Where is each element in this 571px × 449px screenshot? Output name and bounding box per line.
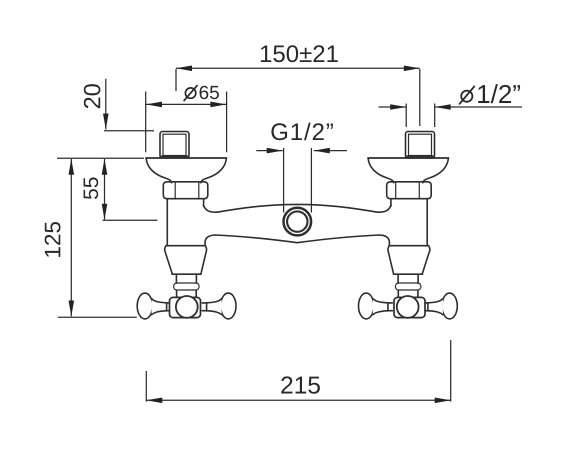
dimension 20 reference line: [104, 130, 154, 132]
body arm top edge: [204, 204, 391, 212]
shower outlet circle outer: [284, 208, 312, 236]
dimension ø1/2 leader line: [435, 106, 522, 108]
dimension ø1/2 inch text: [460, 84, 520, 104]
dimension 215 text: [281, 376, 320, 393]
left valve assembly: [137, 132, 236, 319]
dimension 20 line: [105, 79, 107, 130]
dimension G1/2 inch text: [271, 123, 333, 141]
dimension G1/2 arrows: [256, 150, 282, 152]
dimension 150±21 line: [176, 67, 420, 69]
dimension ø1/2 left arrow: [379, 106, 407, 108]
dimension 55 line: [104, 159, 106, 220]
dimension G1/2 extension lines: [284, 148, 312, 213]
dimension ø65 extension lines: [146, 92, 227, 153]
dimension 125 extension line: [58, 316, 137, 318]
dimension ø65 text: [184, 86, 219, 101]
body arm bottom edge: [205, 235, 389, 246]
dimension 215 extension lines: [146, 340, 450, 402]
dimension 125 line: [70, 159, 72, 316]
dimension 55 text: [84, 177, 99, 199]
dimension 20 text: [84, 84, 101, 108]
dimension 125 text: [45, 222, 61, 257]
dimension 55 extension line: [103, 219, 158, 221]
dimension ø65 line: [146, 103, 226, 105]
dimension ø1/2 extension lines: [406, 104, 435, 128]
dimension 150±21 extension lines: [176, 69, 420, 126]
dimension 215 line: [146, 399, 450, 401]
shower outlet circle inner: [287, 211, 307, 231]
right valve assembly (mirrored): [359, 132, 458, 319]
dimension 150±21 text: [261, 45, 338, 62]
wall face extension line: [57, 157, 144, 159]
